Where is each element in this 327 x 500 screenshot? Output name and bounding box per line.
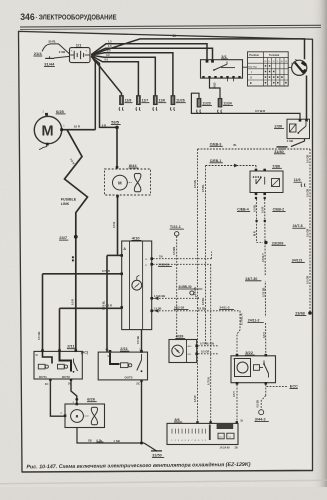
svg-text:1 SB: 1 SB <box>114 439 120 443</box>
svg-text:0.5 W: 0.5 W <box>194 395 197 402</box>
svg-text:11/9: 11/9 <box>294 178 301 182</box>
svg-text:0.5 GN: 0.5 GN <box>194 180 197 188</box>
svg-text:0: 0 <box>291 63 292 65</box>
svg-text:1.5: 1.5 <box>108 44 112 48</box>
svg-text:23/7: 23/7 <box>59 235 68 240</box>
svg-text:6 R: 6 R <box>102 123 106 127</box>
svg-text:0.75 BL-R: 0.75 BL-R <box>241 313 244 325</box>
svg-text:M: M <box>42 123 54 139</box>
svg-text:A: A <box>123 247 126 251</box>
svg-text:3 SB: 3 SB <box>59 50 65 54</box>
svg-text:24/2-29: 24/2-29 <box>174 306 185 310</box>
svg-text:0.5 SB: 0.5 SB <box>257 400 260 408</box>
svg-text:11/26: 11/26 <box>176 99 185 103</box>
svg-text:11/7: 11/7 <box>142 99 149 103</box>
svg-text:0.5 GR: 0.5 GR <box>306 229 310 237</box>
svg-text:24/11-2: 24/11-2 <box>220 306 230 310</box>
svg-text:4/10: 4/10 <box>132 235 141 240</box>
svg-text:0.5 R: 0.5 R <box>260 207 264 213</box>
svg-text:ECC: ECC <box>290 384 298 388</box>
svg-text:SB: SB <box>88 438 92 442</box>
svg-text:C/EB-1: C/EB-1 <box>210 159 222 163</box>
svg-text:11/8: 11/8 <box>125 99 132 103</box>
svg-text:2B: 2B <box>235 447 238 450</box>
svg-text:M R: M R <box>252 231 256 236</box>
svg-text:C20: C20 <box>219 437 222 439</box>
svg-text:1.5 SB: 1.5 SB <box>198 307 206 311</box>
svg-text:OUT1: OUT1 <box>39 375 47 379</box>
svg-text:6/26: 6/26 <box>87 397 96 402</box>
svg-text:4B: 4B <box>105 348 108 351</box>
svg-text:0.5 Y: 0.5 Y <box>232 391 236 397</box>
svg-text:0.5 GR: 0.5 GR <box>306 276 310 284</box>
svg-text:21/4: 21/4 <box>34 51 43 56</box>
svg-text:1.5 SB: 1.5 SB <box>154 307 162 311</box>
svg-text:6/25: 6/25 <box>56 109 65 114</box>
svg-text:ЭЛЕКТРООБОРУДОВАНИЕ: ЭЛЕКТРООБОРУДОВАНИЕ <box>39 15 117 22</box>
svg-text:0.5 BL: 0.5 BL <box>252 204 256 212</box>
svg-text:31/44: 31/44 <box>44 61 55 66</box>
svg-text:0.5 GN: 0.5 GN <box>37 332 41 340</box>
svg-text:0.5 SB: 0.5 SB <box>136 336 140 344</box>
svg-text:Terminal: Terminal <box>269 54 280 57</box>
svg-text:(AC): (AC) <box>81 351 88 355</box>
svg-text:3/1: 3/1 <box>221 54 227 59</box>
svg-text:0.5 GR: 0.5 GR <box>201 349 209 353</box>
svg-text:24/89-89: 24/89-89 <box>158 263 169 267</box>
svg-text:OUT2: OUT2 <box>125 376 133 380</box>
svg-text:0.5 R: 0.5 R <box>72 299 75 305</box>
svg-text:C/EB-4: C/EB-4 <box>237 208 249 212</box>
svg-text:1A 2A 9A: 1A 2A 9A <box>220 447 231 450</box>
svg-text:7/80: 7/80 <box>272 163 281 168</box>
svg-text:7/9: 7/9 <box>159 255 163 259</box>
svg-text:C/EB-3: C/EB-3 <box>210 142 222 146</box>
svg-text:·: · <box>35 14 37 21</box>
svg-text:T/22-1: T/22-1 <box>170 225 181 229</box>
svg-text:4/39: 4/39 <box>176 333 185 338</box>
svg-text:0.5 BN: 0.5 BN <box>172 247 176 255</box>
svg-text:2/30: 2/30 <box>274 123 283 128</box>
svg-text:0.5 GR: 0.5 GR <box>306 155 310 163</box>
svg-text:11/6: 11/6 <box>159 99 166 103</box>
svg-text:LINK: LINK <box>61 202 70 206</box>
svg-text:0.75 BL-GN: 0.75 BL-GN <box>200 341 214 345</box>
svg-text:0.5 R: 0.5 R <box>112 222 116 228</box>
svg-text:4.0: 4.0 <box>106 53 110 57</box>
svg-text:31/80: 31/80 <box>274 150 284 154</box>
svg-text:23/209: 23/209 <box>272 241 284 245</box>
svg-text:1.5 R-SB: 1.5 R-SB <box>154 294 165 298</box>
svg-text:0.5 W-R: 0.5 W-R <box>255 109 265 113</box>
svg-text:2/11: 2/11 <box>67 344 75 349</box>
svg-text:11/23: 11/23 <box>202 102 211 106</box>
svg-text:C/EB-2: C/EB-2 <box>273 208 285 212</box>
svg-text:1/1: 1/1 <box>76 42 82 47</box>
svg-text:0.75 R: 0.75 R <box>102 269 110 273</box>
svg-text:C1: C1 <box>229 437 231 439</box>
svg-text:0.75 W: 0.75 W <box>207 376 210 385</box>
svg-text:30 RL: 30 RL <box>48 40 56 44</box>
svg-text:0.5 Y: 0.5 Y <box>262 332 266 338</box>
svg-text:4/45B-30: 4/45B-30 <box>178 285 191 289</box>
svg-text:M: M <box>76 415 79 419</box>
svg-text:0.5 BL: 0.5 BL <box>202 297 205 305</box>
svg-text:OUT2: OUT2 <box>62 375 70 379</box>
svg-text:0.5 GR: 0.5 GR <box>306 189 310 197</box>
svg-text:346: 346 <box>20 11 35 22</box>
svg-text:III: III <box>250 82 252 85</box>
svg-text:6.0: 6.0 <box>105 58 109 62</box>
svg-text:24/7-30: 24/7-30 <box>245 277 257 281</box>
svg-text:3/22: 3/22 <box>245 350 254 355</box>
svg-text:0.75 SB: 0.75 SB <box>261 288 265 297</box>
svg-text:0.5 GN: 0.5 GN <box>194 287 197 295</box>
svg-text:53/5: 53/5 <box>111 120 120 125</box>
svg-text:23/68: 23/68 <box>295 312 305 316</box>
svg-text:1A: 1A <box>139 348 142 351</box>
svg-text:1.5: 1.5 <box>108 40 112 44</box>
svg-text:3/44-2: 3/44-2 <box>255 417 266 421</box>
svg-text:31/50: 31/50 <box>152 453 162 457</box>
svg-text:2/11: 2/11 <box>120 346 128 351</box>
svg-text:0.5 R: 0.5 R <box>106 304 112 308</box>
svg-text:16 R: 16 R <box>74 125 81 129</box>
svg-text:0.5 R-Y: 0.5 R-Y <box>261 253 265 262</box>
svg-text:2.5: 2.5 <box>107 49 111 53</box>
svg-text:24/7-8: 24/7-8 <box>293 224 303 228</box>
svg-text:BL: BL <box>234 144 238 147</box>
svg-text:15/15: 15/15 <box>212 82 216 89</box>
svg-text:24/11-2: 24/11-2 <box>248 318 260 322</box>
svg-text:30: 30 <box>173 34 177 38</box>
svg-text:0.5 BL: 0.5 BL <box>202 184 205 192</box>
svg-text:FUSIBLE: FUSIBLE <box>61 197 77 201</box>
svg-text:11/24: 11/24 <box>223 102 232 106</box>
svg-text:3/6: 3/6 <box>174 417 180 422</box>
svg-text:Key Out: Key Out <box>248 65 257 68</box>
svg-text:M: M <box>118 181 122 186</box>
svg-text:4 SB: 4 SB <box>287 139 293 143</box>
svg-text:Position: Position <box>249 54 259 57</box>
svg-text:8/44: 8/44 <box>129 163 138 168</box>
svg-text:34/121: 34/121 <box>292 259 303 263</box>
